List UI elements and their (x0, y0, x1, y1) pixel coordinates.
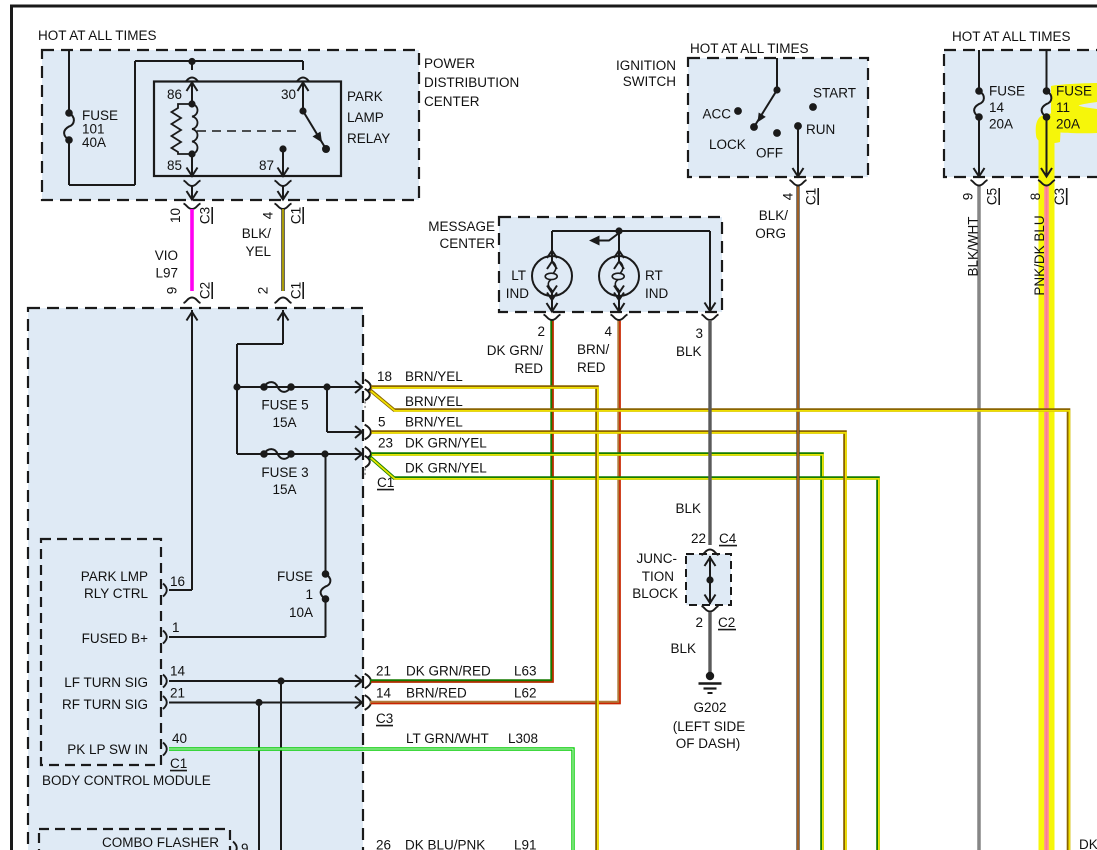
svg-text:BLK/: BLK/ (759, 208, 789, 223)
svg-text:RT: RT (645, 268, 663, 283)
svg-text:10A: 10A (289, 605, 313, 620)
svg-text:C2: C2 (718, 615, 735, 630)
svg-text:PNK/DK BLU: PNK/DK BLU (1032, 215, 1047, 295)
svg-text:9: 9 (241, 841, 249, 850)
svg-text:L62: L62 (514, 686, 537, 701)
svg-text:ACC: ACC (702, 107, 731, 122)
svg-text:C3: C3 (1052, 188, 1067, 205)
svg-text:26: 26 (376, 838, 391, 850)
svg-text:1: 1 (305, 587, 313, 602)
svg-text:BRN/YEL: BRN/YEL (405, 415, 463, 430)
svg-text:8: 8 (1028, 193, 1043, 201)
svg-text:MESSAGE: MESSAGE (428, 219, 495, 234)
svg-text:BLK: BLK (670, 641, 696, 656)
svg-text:IGNITION: IGNITION (616, 58, 676, 73)
svg-text:FUSE 5: FUSE 5 (261, 398, 308, 413)
svg-text:2: 2 (537, 324, 545, 339)
svg-text:OFF: OFF (756, 146, 783, 161)
svg-text:5: 5 (378, 415, 386, 430)
svg-text:DK GRN/YEL: DK GRN/YEL (405, 461, 487, 476)
svg-text:20A: 20A (1056, 117, 1080, 132)
svg-text:RED: RED (577, 360, 606, 375)
svg-text:OF DASH): OF DASH) (676, 736, 741, 751)
svg-text:LOCK: LOCK (709, 137, 746, 152)
svg-text:BLOCK: BLOCK (632, 586, 678, 601)
svg-text:1: 1 (172, 620, 180, 635)
svg-text:4: 4 (604, 324, 612, 339)
svg-text:BRN/YEL: BRN/YEL (405, 394, 463, 409)
svg-text:DISTRIBUTION: DISTRIBUTION (424, 75, 519, 90)
svg-text:FUSE: FUSE (277, 569, 313, 584)
svg-text:C3: C3 (376, 711, 393, 726)
svg-text:18: 18 (377, 369, 392, 384)
svg-text:C2: C2 (198, 282, 213, 299)
svg-text:VIO: VIO (155, 248, 178, 263)
svg-text:BLK/WHT: BLK/WHT (966, 216, 981, 276)
svg-text:BLK: BLK (675, 501, 701, 516)
svg-text:21: 21 (376, 664, 391, 679)
svg-text:C4: C4 (719, 531, 737, 546)
svg-text:14: 14 (989, 100, 1005, 115)
svg-text:11: 11 (1056, 100, 1070, 115)
svg-text:ORG: ORG (755, 226, 786, 241)
svg-text:30: 30 (281, 87, 296, 102)
svg-text:FUSE 3: FUSE 3 (261, 465, 308, 480)
svg-text:DK BLU/PNK: DK BLU/PNK (405, 838, 485, 850)
svg-text:22: 22 (691, 531, 706, 546)
svg-text:23: 23 (378, 436, 393, 451)
svg-text:G202: G202 (693, 700, 726, 715)
svg-text:BRN/YEL: BRN/YEL (405, 369, 463, 384)
svg-text:40: 40 (172, 731, 187, 746)
svg-text:9: 9 (165, 287, 180, 295)
svg-text:LT: LT (511, 268, 526, 283)
svg-text:POWER: POWER (424, 56, 475, 71)
svg-text:BRN/: BRN/ (577, 342, 610, 357)
svg-text:RF TURN SIG: RF TURN SIG (62, 697, 148, 712)
svg-text:4: 4 (781, 192, 796, 200)
svg-text:16: 16 (170, 574, 185, 589)
svg-text:TION: TION (642, 569, 674, 584)
svg-text:2: 2 (256, 287, 271, 295)
svg-text:C3: C3 (198, 207, 213, 224)
svg-text:YEL: YEL (245, 244, 271, 259)
svg-text:3: 3 (695, 326, 703, 341)
svg-text:14: 14 (170, 664, 186, 679)
svg-text:RUN: RUN (806, 122, 835, 137)
svg-text:C5: C5 (985, 188, 1000, 205)
svg-text:RELAY: RELAY (347, 131, 390, 146)
svg-text:C1: C1 (289, 207, 304, 224)
svg-text:FUSED B+: FUSED B+ (82, 631, 149, 646)
svg-text:DK GRN/YEL: DK GRN/YEL (405, 436, 487, 451)
svg-text:BLK/: BLK/ (242, 226, 272, 241)
svg-text:40A: 40A (82, 135, 106, 150)
svg-text:LF TURN SIG: LF TURN SIG (64, 675, 148, 690)
svg-text:HOT AT ALL TIMES: HOT AT ALL TIMES (952, 29, 1071, 44)
svg-text:10: 10 (168, 208, 183, 223)
svg-text:21: 21 (170, 686, 185, 701)
svg-text:BLK: BLK (676, 344, 702, 359)
svg-text:LAMP: LAMP (347, 110, 384, 125)
svg-text:BRN/RED: BRN/RED (406, 686, 467, 701)
svg-text:15A: 15A (272, 482, 296, 497)
svg-text:9: 9 (961, 193, 976, 201)
svg-text:HOT AT ALL TIMES: HOT AT ALL TIMES (38, 28, 157, 43)
svg-text:FUSE: FUSE (1056, 84, 1092, 99)
svg-text:C1: C1 (170, 756, 187, 771)
svg-text:L308: L308 (508, 731, 538, 746)
svg-text:PARK LMP: PARK LMP (81, 569, 148, 584)
svg-text:START: START (813, 86, 856, 101)
svg-text:L97: L97 (155, 266, 178, 281)
svg-text:85: 85 (167, 158, 182, 173)
svg-text:CENTER: CENTER (439, 236, 495, 251)
svg-text:JUNC-: JUNC- (637, 551, 678, 566)
svg-text:DK: DK (1079, 837, 1097, 850)
svg-text:PARK: PARK (347, 89, 383, 104)
svg-text:DK GRN/: DK GRN/ (487, 343, 544, 358)
svg-text:87: 87 (259, 158, 274, 173)
svg-text:IND: IND (645, 286, 669, 301)
svg-text:L91: L91 (514, 838, 537, 850)
svg-text:DK GRN/RED: DK GRN/RED (406, 664, 491, 679)
svg-text:IND: IND (506, 286, 530, 301)
svg-text:2: 2 (695, 615, 703, 630)
svg-text:L63: L63 (514, 664, 537, 679)
svg-text:4: 4 (261, 211, 276, 219)
svg-text:SWITCH: SWITCH (623, 74, 676, 89)
svg-text:LT GRN/WHT: LT GRN/WHT (406, 731, 489, 746)
svg-text:PK LP SW IN: PK LP SW IN (67, 742, 148, 757)
svg-text:14: 14 (376, 686, 392, 701)
svg-text:86: 86 (167, 87, 182, 102)
svg-text:15A: 15A (272, 415, 296, 430)
svg-text:FUSE: FUSE (989, 84, 1025, 99)
svg-text:C1: C1 (289, 282, 304, 299)
svg-text:C1: C1 (804, 188, 819, 205)
svg-text:20A: 20A (989, 117, 1013, 132)
svg-text:RED: RED (514, 361, 543, 376)
svg-text:BODY CONTROL MODULE: BODY CONTROL MODULE (42, 773, 211, 788)
svg-text:CENTER: CENTER (424, 94, 480, 109)
svg-text:COMBO FLASHER: COMBO FLASHER (102, 835, 219, 850)
svg-text:HOT AT ALL TIMES: HOT AT ALL TIMES (690, 41, 809, 56)
svg-text:RLY CTRL: RLY CTRL (84, 586, 149, 601)
svg-text:(LEFT SIDE: (LEFT SIDE (673, 719, 746, 734)
